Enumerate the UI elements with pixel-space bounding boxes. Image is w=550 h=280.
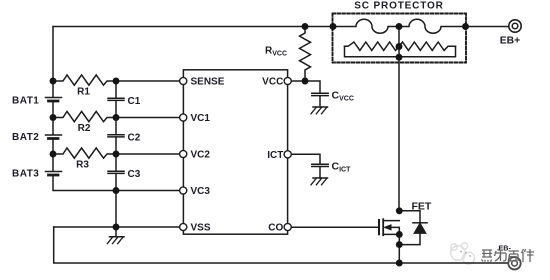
- node bat top: [50, 78, 57, 85]
- node fet source: [396, 231, 403, 238]
- wire BAT3 bottom to VC3 row: [53, 176, 116, 191]
- capacitor C1: [108, 98, 124, 100]
- svg-text:ICT: ICT: [267, 150, 283, 161]
- wire CO pin to FET gate: [288, 226, 379, 228]
- pin circles: [180, 77, 292, 230]
- capacitor CVCC: [312, 93, 328, 95]
- heater resistor left: [345, 42, 400, 50]
- wire bottom rail B-: [54, 227, 509, 263]
- heater resistor right: [399, 42, 456, 50]
- svg-text:BAT2: BAT2: [12, 132, 39, 143]
- svg-text:C1: C1: [128, 96, 141, 107]
- svg-text:EB+: EB+: [500, 36, 521, 47]
- svg-text:C3: C3: [128, 169, 141, 180]
- node heater center: [396, 43, 403, 50]
- svg-text:VCC: VCC: [262, 77, 283, 88]
- wire VSS row: [54, 226, 180, 228]
- pin VC3: [180, 187, 187, 194]
- ground below CVCC: [311, 96, 328, 114]
- wire VC1 row: [116, 117, 180, 119]
- watermark panda logo: [451, 243, 475, 264]
- svg-text:C2: C2: [128, 133, 141, 144]
- pin CO: [284, 223, 291, 230]
- node bat mid1: [50, 114, 57, 121]
- node cap col vss: [113, 224, 120, 231]
- resistor R2: [53, 111, 116, 121]
- svg-text:BAT1: BAT1: [12, 96, 39, 107]
- wire ICT pin to CICT: [288, 154, 320, 164]
- svg-text:VC3: VC3: [191, 186, 211, 197]
- svg-text:CO: CO: [268, 223, 283, 234]
- node bottom rail: [396, 260, 403, 267]
- wire left drop to battery stack: [52, 27, 54, 98]
- svg-text:R2: R2: [78, 123, 91, 134]
- ground below VSS node: [107, 227, 124, 244]
- node protector left: [330, 23, 337, 30]
- fuse element 2: [399, 19, 466, 33]
- battery BAT1: [46, 98, 62, 102]
- node diode return: [396, 241, 403, 248]
- node protector center: [396, 23, 403, 30]
- wire FET source to bottom rail: [398, 234, 400, 263]
- pin ICT: [284, 151, 291, 158]
- wire SENSE row: [116, 80, 180, 82]
- svg-text:FET: FET: [411, 201, 431, 213]
- pin SENSE: [180, 77, 187, 84]
- heater end brackets: [345, 46, 456, 57]
- wire VC3 row to pin: [116, 190, 180, 192]
- resistor R3: [53, 148, 116, 158]
- fuse element 1: [333, 19, 399, 33]
- wire BAT1 to BAT2: [52, 102, 54, 135]
- wire BAT2 to BAT3: [52, 140, 54, 172]
- node cap col vc3: [113, 187, 120, 194]
- ground below CICT: [311, 167, 328, 185]
- wire protector to EB+: [466, 26, 509, 28]
- SC protector dashed box: [333, 14, 467, 63]
- battery BAT3: [46, 172, 62, 176]
- resistor RVCC: [300, 27, 311, 82]
- pin VCC: [284, 77, 291, 84]
- wire VC2 row: [116, 153, 180, 155]
- node rvcc top: [302, 23, 309, 30]
- watermark text 熊猫硬件 (pseudo glyphs): [482, 249, 535, 262]
- node cap col sense: [113, 78, 120, 85]
- svg-text:R1: R1: [77, 87, 90, 98]
- svg-text:SENSE: SENSE: [191, 77, 225, 88]
- terminal EB-: [508, 257, 520, 269]
- node rvcc vcc: [302, 78, 309, 85]
- IC box U1: [183, 70, 287, 234]
- body diode D1: [399, 211, 427, 245]
- wire protector center drop to FET drain: [398, 27, 400, 211]
- capacitor C2: [108, 135, 124, 137]
- resistor R1: [53, 75, 116, 85]
- svg-text:VC2: VC2: [191, 150, 211, 161]
- wire VCC pin to CVCC: [288, 81, 320, 93]
- node cap col vc1: [113, 114, 120, 121]
- node cap col vc2: [113, 151, 120, 158]
- battery BAT2: [46, 135, 62, 139]
- wire capacitor column: [115, 81, 117, 227]
- capacitor C3: [108, 171, 124, 173]
- svg-text:R3: R3: [76, 160, 89, 171]
- node bat mid2: [50, 151, 57, 158]
- node heater bottom: [396, 54, 403, 61]
- terminal EB+: [509, 20, 521, 32]
- pin VC1: [180, 114, 187, 121]
- wire top rail B+: [53, 26, 333, 28]
- svg-text:VSS: VSS: [191, 223, 211, 234]
- capacitor CICT: [312, 164, 328, 166]
- svg-text:SC PROTECTOR: SC PROTECTOR: [354, 0, 443, 11]
- pin VC2: [180, 150, 187, 157]
- pin VSS: [180, 223, 187, 230]
- node protector right: [462, 23, 469, 30]
- transistor FET Q1: [379, 219, 399, 235]
- node fet drain: [396, 207, 403, 214]
- svg-text:BAT3: BAT3: [12, 169, 39, 180]
- svg-text:VC1: VC1: [191, 113, 211, 124]
